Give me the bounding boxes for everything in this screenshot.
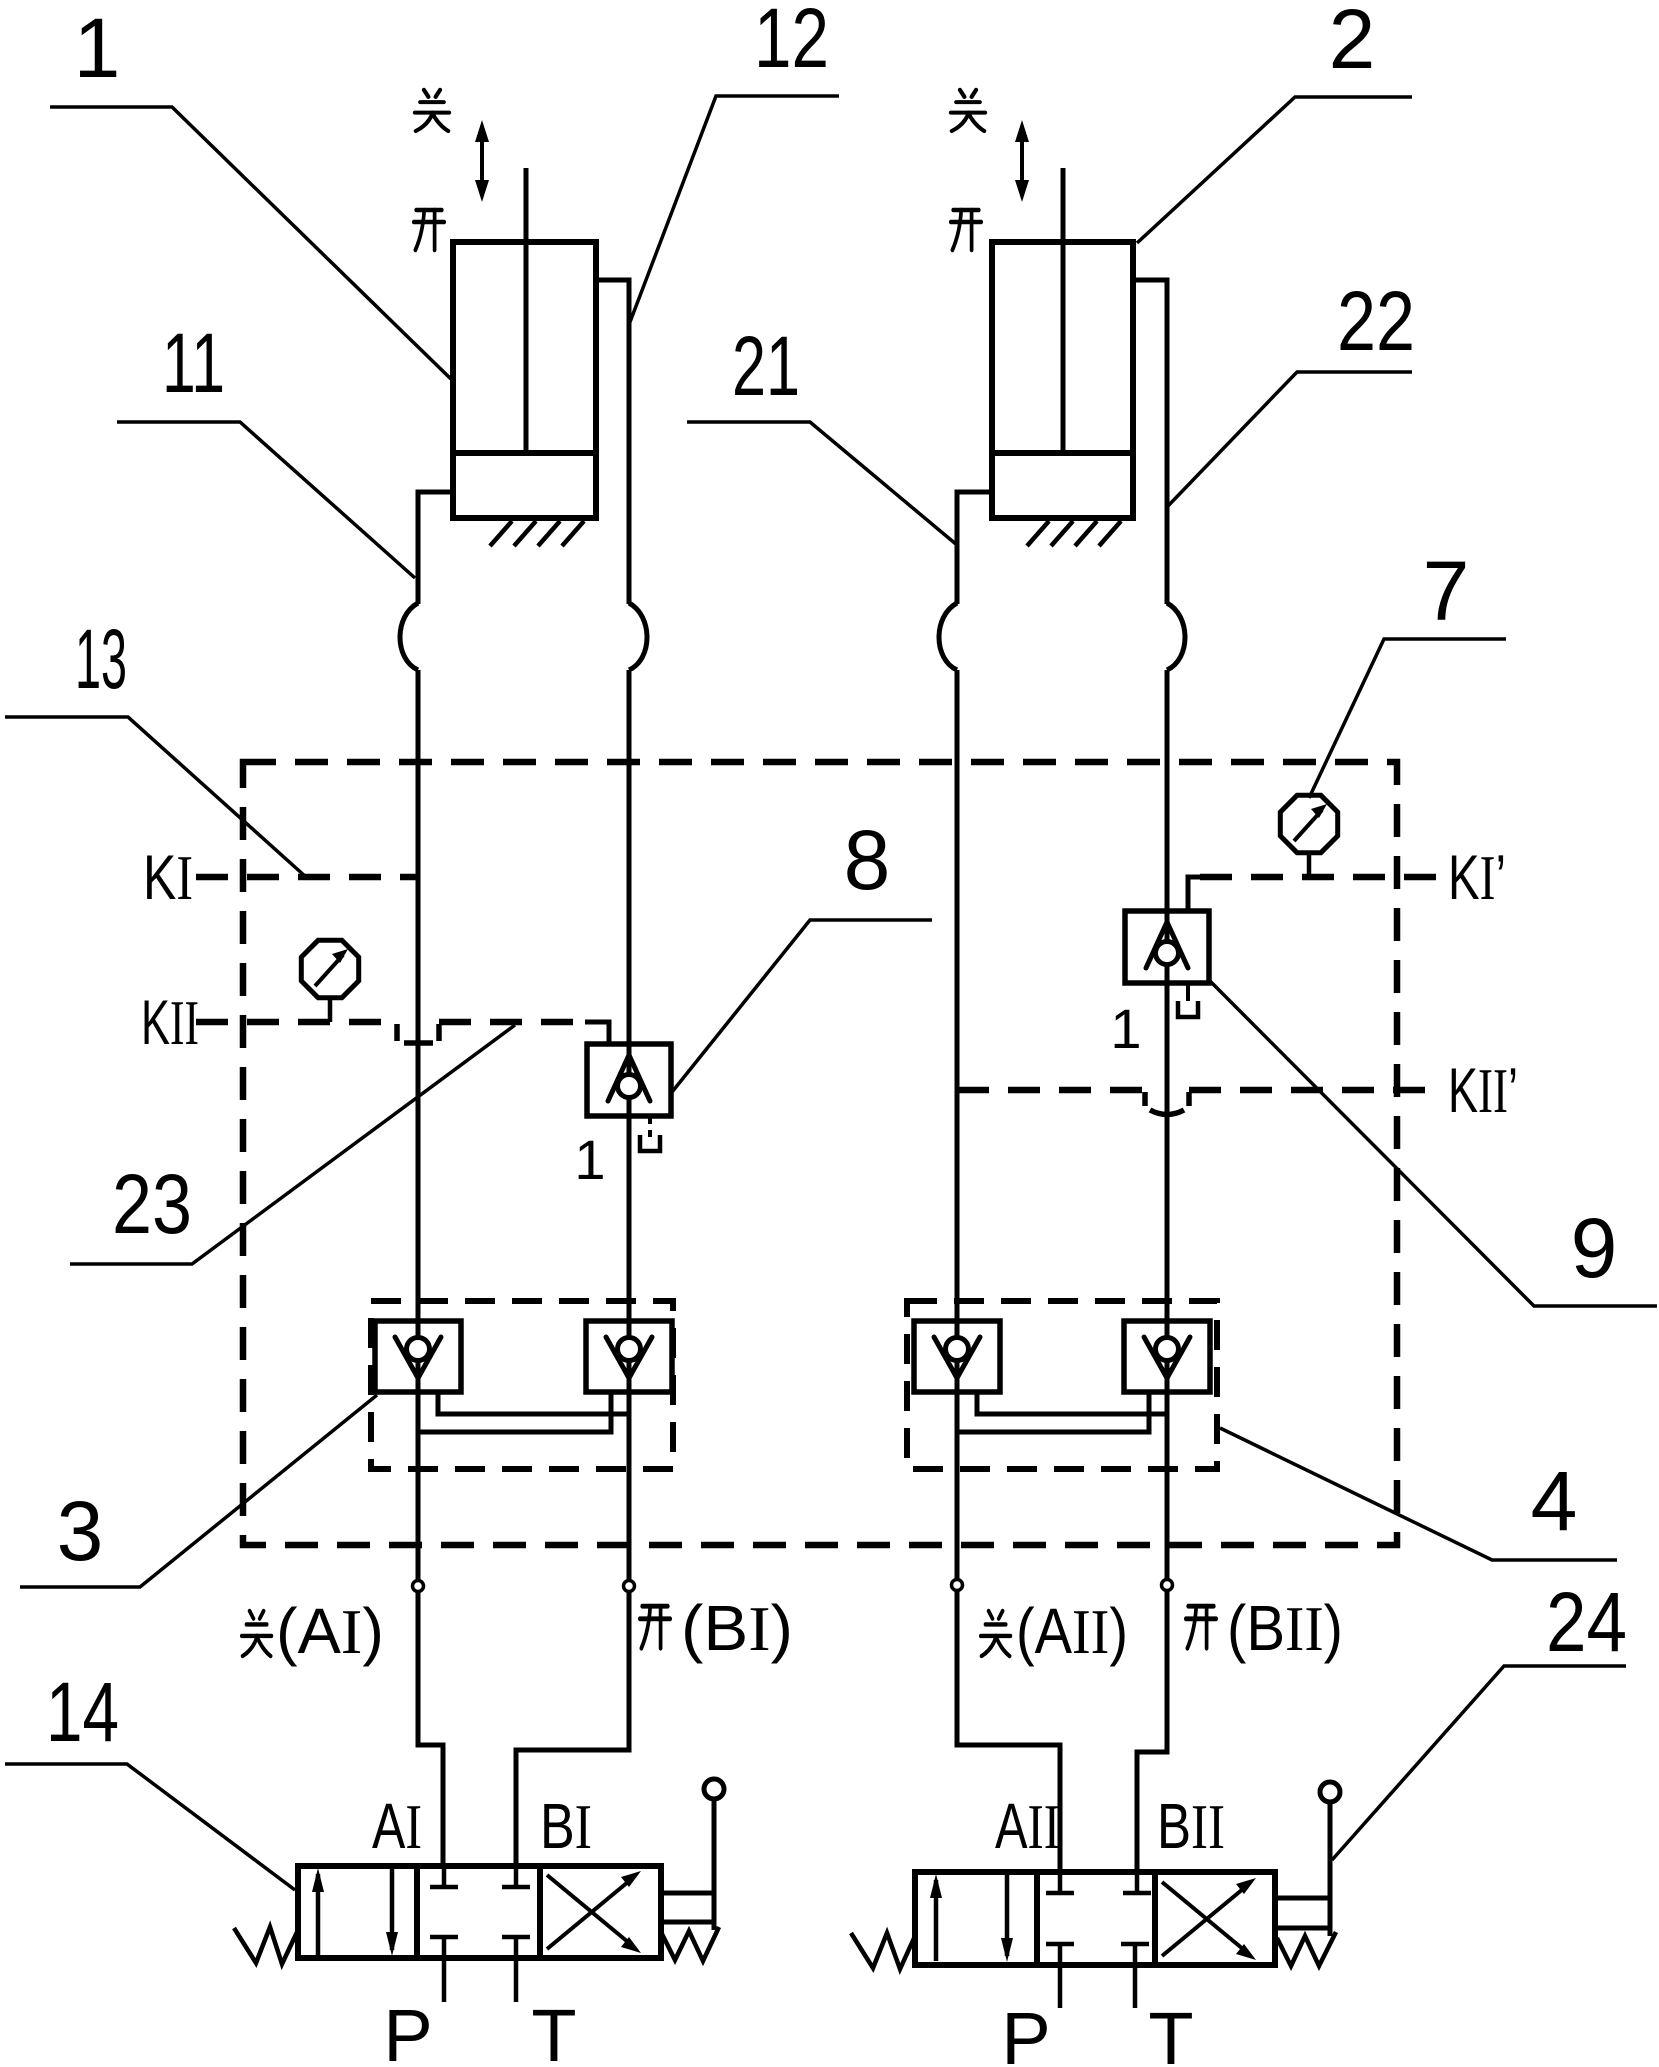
dash jump of KII over wire AI bbox=[397, 1024, 439, 1043]
svg-text:KII’: KII’ bbox=[1448, 1056, 1518, 1126]
drain of valve 9 bbox=[1186, 983, 1190, 1001]
piston of cylinder 1 bbox=[453, 450, 596, 456]
wire AII: right cylinder bottom port to valve port AII bbox=[957, 492, 992, 604]
glyph 开 of port BII bbox=[1186, 1606, 1216, 1648]
leader line, label 3 bbox=[20, 1395, 377, 1587]
svg-text:KII: KII bbox=[141, 988, 199, 1058]
wire BII: right cylinder top port to valve port BII bbox=[1133, 280, 1167, 604]
svg-text:AII: AII bbox=[995, 1790, 1060, 1862]
port node AI bbox=[413, 1581, 424, 1592]
pilot operated check valve 9 bbox=[1125, 911, 1209, 983]
svg-text:1: 1 bbox=[1110, 997, 1141, 1060]
svg-text:AI: AI bbox=[372, 1790, 422, 1862]
hose on wire AII bbox=[939, 603, 957, 670]
svg-text:(BII): (BII) bbox=[1227, 1592, 1343, 1664]
svg-text:3: 3 bbox=[57, 1484, 104, 1578]
svg-text:8: 8 bbox=[844, 813, 891, 907]
valve 14 right position crossed arrows bbox=[547, 1871, 641, 1953]
node line KII' (dashed, jumps wire) bbox=[957, 1087, 1145, 1094]
svg-text:KI’: KI’ bbox=[1448, 843, 1506, 913]
svg-text:11: 11 bbox=[162, 316, 225, 410]
hydraulic cylinder 2 (right) body bbox=[992, 242, 1133, 518]
spring, right valve left end bbox=[851, 1933, 915, 1969]
glyph 关 of port AI bbox=[242, 1611, 272, 1656]
hydraulic cylinder 1 (left) body bbox=[453, 242, 596, 518]
svg-text:2: 2 bbox=[1329, 0, 1376, 86]
right valve left position arrows bbox=[930, 1874, 1013, 1962]
svg-text:4: 4 bbox=[1531, 1454, 1578, 1548]
wire AI: left cylinder bottom port to valve 14 port AI bbox=[418, 492, 453, 604]
check valve of block 4 (A side) bbox=[914, 1321, 1000, 1392]
svg-text:BI: BI bbox=[540, 1790, 592, 1862]
valve 14 left position arrows bbox=[312, 1868, 398, 1956]
svg-text:1: 1 bbox=[74, 1, 121, 95]
ground hatching under cylinder 1 bbox=[490, 521, 584, 546]
enclosure box 13 (manifold, dashed) bbox=[243, 762, 1397, 1545]
svg-text:23: 23 bbox=[112, 1157, 192, 1251]
label 开 above cylinder 1 bbox=[414, 210, 444, 250]
port node BI bbox=[624, 1581, 635, 1592]
svg-text:13: 13 bbox=[75, 612, 127, 706]
leader line, label 2 bbox=[1137, 97, 1412, 243]
ground hatching under cylinder 2 bbox=[1027, 521, 1121, 546]
directional valve 14 (left) body bbox=[298, 1866, 661, 1958]
port node AII bbox=[952, 1580, 963, 1591]
hose on wire BII bbox=[1167, 603, 1185, 670]
svg-text:7: 7 bbox=[1423, 544, 1470, 638]
P T stubs of valve 14 bbox=[444, 1958, 516, 2002]
hose (flexible) on wire AI bbox=[400, 603, 418, 670]
leader line, label 9 bbox=[1209, 980, 1657, 1306]
pilot tap of valve 8 to KII bbox=[585, 1022, 609, 1045]
pressure gauge at KII bbox=[301, 940, 358, 997]
hose on wire BI bbox=[629, 603, 647, 670]
label 开 above cylinder 2 bbox=[951, 210, 981, 250]
check valve of block 4 (B side) bbox=[1124, 1321, 1210, 1392]
leader line, label 22 bbox=[1167, 372, 1412, 507]
dash jump of KII' over wire BII bbox=[1145, 1092, 1189, 1115]
pilot tap of valve 9 to KI' bbox=[1188, 877, 1212, 912]
drain of valve 8 bbox=[648, 1116, 652, 1137]
leader line, label 12 bbox=[630, 96, 839, 322]
check valve of block 3 (B side) bbox=[586, 1321, 672, 1392]
spring, right valve right end bbox=[1277, 1932, 1336, 1966]
svg-text:22: 22 bbox=[1337, 274, 1415, 368]
motion arrow of cylinder 2 bbox=[1015, 120, 1029, 202]
svg-text:BII: BII bbox=[1157, 1790, 1225, 1862]
pressure gauge 7 at KI' bbox=[1280, 795, 1337, 852]
svg-text:T: T bbox=[531, 1994, 576, 2067]
svg-text:KI: KI bbox=[143, 843, 193, 913]
wire BI: left cylinder top port to valve 14 port BI bbox=[596, 280, 629, 604]
cross pilot lines of block 3 bbox=[438, 1392, 629, 1414]
wire BII lower run bbox=[1137, 670, 1167, 1874]
svg-text:1: 1 bbox=[574, 1128, 605, 1191]
svg-text:(AII): (AII) bbox=[1016, 1595, 1128, 1667]
glyph 关 of port AII bbox=[981, 1611, 1011, 1656]
leader line, label 11 bbox=[117, 422, 415, 578]
spring, valve 14 right end bbox=[661, 1927, 719, 1961]
spring, valve 14 left end bbox=[234, 1927, 298, 1964]
leader line, label 7 bbox=[1309, 639, 1506, 798]
svg-text:T: T bbox=[1148, 1997, 1193, 2067]
leader line, label 13 bbox=[5, 717, 306, 877]
svg-text:P: P bbox=[1001, 1997, 1050, 2067]
cross pilot lines of block 4 bbox=[977, 1392, 1167, 1414]
wire BI lower run bbox=[516, 670, 629, 1868]
port node BII bbox=[1162, 1580, 1173, 1591]
motion arrow of cylinder 1 bbox=[475, 120, 489, 202]
directional valve 24' (right) body bbox=[915, 1872, 1275, 1965]
check valve of block 3 (A side) bbox=[375, 1321, 461, 1392]
svg-text:14: 14 bbox=[46, 1665, 119, 1759]
node line KII (dashed, jumps wire) bbox=[196, 1019, 397, 1026]
svg-text:(BI): (BI) bbox=[681, 1592, 793, 1664]
leader line, label 4 bbox=[1220, 1428, 1617, 1560]
dashed box around pilot check pair 3 bbox=[371, 1301, 673, 1469]
label 关 above cylinder 2 bbox=[951, 90, 985, 131]
valve 14 centre position blocked ports bbox=[430, 1866, 530, 1958]
svg-text:12: 12 bbox=[754, 0, 829, 85]
node line KI (dashed) bbox=[196, 874, 418, 881]
manual actuator of right valve bbox=[1275, 1782, 1340, 1936]
piston rod of cylinder 2 bbox=[1061, 168, 1066, 453]
dashed box around pilot check pair 4 bbox=[907, 1301, 1217, 1469]
leader line, label 8 bbox=[672, 920, 932, 1092]
svg-text:P: P bbox=[383, 1994, 432, 2067]
wire AI lower run bbox=[418, 670, 443, 1868]
svg-text:9: 9 bbox=[1571, 1201, 1618, 1295]
pilot operated check valve 8 bbox=[587, 1044, 671, 1116]
glyph 开 of port BI bbox=[640, 1606, 670, 1648]
leader line, label 21 bbox=[687, 422, 957, 545]
leader line, label 23 bbox=[70, 1025, 515, 1264]
leader line, label 14 bbox=[5, 1764, 295, 1890]
right valve crossed arrows bbox=[1162, 1878, 1256, 1960]
piston of cylinder 2 bbox=[992, 450, 1133, 456]
right valve centre position blocked ports bbox=[1046, 1872, 1151, 1965]
label 关 above cylinder 1 bbox=[415, 90, 449, 131]
piston rod of cylinder 1 bbox=[524, 168, 529, 453]
wire AII lower run bbox=[957, 670, 1060, 1874]
leader line, label 24 bbox=[1332, 1666, 1626, 1860]
svg-text:24: 24 bbox=[1546, 1575, 1627, 1669]
svg-text:21: 21 bbox=[732, 319, 800, 413]
node line KI' (dashed) bbox=[1200, 874, 1436, 881]
svg-text:(AI): (AI) bbox=[276, 1595, 384, 1667]
P T stubs of right valve bbox=[1060, 1965, 1135, 2008]
manual actuator of valve 14 bbox=[661, 1779, 724, 1930]
